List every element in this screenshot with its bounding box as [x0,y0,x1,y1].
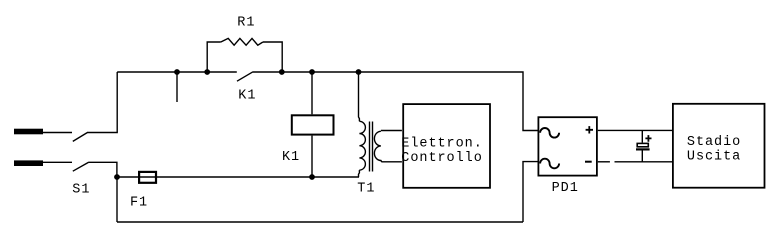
PD1 minus sign [585,161,592,163]
svg-text:F1: F1 [130,195,148,210]
PD1 AC sine symbol top [540,128,559,138]
top rail left segment [117,71,237,73]
svg-text:S1: S1 [72,182,90,197]
wire S1b down to fuse line [88,162,117,177]
transformer T1 primary winding [359,121,365,170]
top rail right segment [252,72,537,131]
svg-text:K1: K1 [282,150,300,165]
junction dot [309,69,315,75]
junction dot [114,174,120,180]
rectifier PD1 box [538,117,597,175]
output stage box [673,104,765,188]
left vertical to bottom rail [116,177,118,222]
transformer T1 secondary bottom stub [382,161,402,163]
transformer T1 secondary top stub [381,130,402,132]
svg-text:T1: T1 [357,182,375,197]
transformer T1 primary lead [358,72,361,121]
fuse wire (neutral line) [117,176,359,178]
transformer T1 primary bottom lead [358,170,361,177]
capacitor C1 bottom stub [641,150,643,162]
capacitor C1 positive plate [637,143,648,146]
svg-text:Elettron.: Elettron. [401,136,482,151]
wire plug-top to switch S1a [43,132,72,134]
PD1 AC sine symbol bottom [540,159,559,169]
wire PD1 plus to output stage [598,129,672,131]
switch S1 pole a blade [73,133,87,142]
junction dot [356,69,362,75]
node stub on top rail [176,72,178,102]
resistor R1 zigzag [221,38,263,45]
plug terminal bar top [14,129,43,135]
svg-text:Stadio: Stadio [687,135,741,150]
transformer T1 core line 2 [372,122,374,172]
bottom rail riser to PD1 [523,162,538,222]
junction dot [204,69,210,75]
capacitor C1 negative plate [636,148,650,150]
svg-text:PD1: PD1 [552,181,579,196]
relay coil K1 branch top [311,72,313,114]
PD1 plus sign [586,126,593,133]
wire S1a to top rail corner [87,72,117,133]
wire plug-bottom to switch S1b [43,161,72,163]
relay coil K1 rectangle [292,115,334,134]
bottom rail [117,221,523,223]
junction dot [309,174,315,180]
transformer T1 core line 1 [369,122,371,172]
junction dot [174,69,180,75]
switch S1 pole b blade [73,162,89,171]
svg-text:R1: R1 [237,16,255,31]
transformer T1 secondary winding [374,131,381,162]
resistor R1 branch right riser [263,42,282,72]
svg-text:Uscita: Uscita [687,150,741,165]
svg-text:Controllo: Controllo [401,151,482,166]
capacitor C1 top stub [641,130,643,142]
resistor R1 branch left riser [207,42,221,72]
capacitor C1 plus sign [645,135,651,142]
relay coil K1 branch bottom [311,136,313,177]
plug terminal bar bottom [14,160,43,166]
svg-text:K1: K1 [238,89,256,104]
junction dot [279,69,285,75]
fuse F1 body [139,172,156,183]
wire PD1 minus to output stage [615,161,673,163]
relay contact K1 blade [237,72,252,81]
control unit box [403,104,490,188]
wire PD1 minus dash [598,161,610,163]
